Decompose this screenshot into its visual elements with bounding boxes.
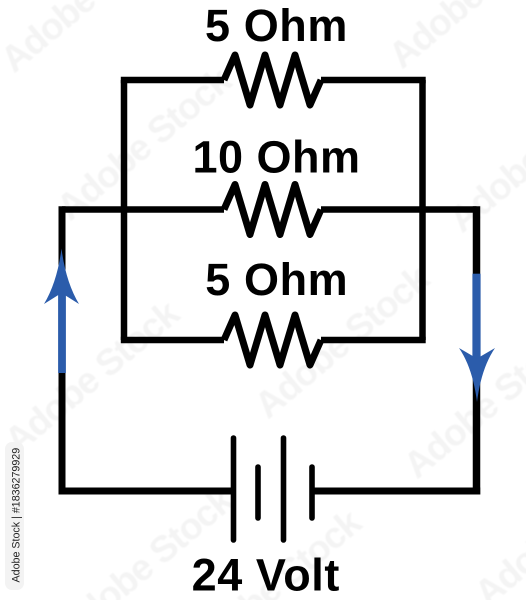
resistor R2 10 Ohm zigzag bbox=[224, 185, 321, 235]
resistor R3 5 Ohm zigzag bbox=[224, 315, 321, 365]
current arrow right (down) shaft bbox=[472, 274, 480, 360]
current arrow left (up) head bbox=[44, 249, 79, 305]
attribution pill background bbox=[5, 442, 24, 590]
wire: bottom left segment to battery bbox=[59, 488, 234, 495]
wire: top row right segment bbox=[321, 77, 426, 84]
wire: top row left segment bbox=[121, 77, 224, 84]
wire: inner box right rail bbox=[419, 80, 426, 340]
wire: inner box left rail bbox=[121, 80, 128, 340]
wire: middle row full span bbox=[62, 206, 224, 213]
svg-text:5 Ohm: 5 Ohm bbox=[205, 0, 348, 51]
svg-text:10 Ohm: 10 Ohm bbox=[192, 131, 360, 182]
battery B1 long plate 1 bbox=[231, 438, 237, 540]
wire: middle row right segment bbox=[321, 206, 477, 213]
battery B1 long plate 2 bbox=[281, 438, 287, 540]
svg-text:Adobe Stock | #1836279929: Adobe Stock | #1836279929 bbox=[11, 448, 23, 583]
wire: bottom row right segment bbox=[321, 337, 426, 344]
svg-text:5 Ohm: 5 Ohm bbox=[205, 254, 348, 305]
wire: bottom row left segment bbox=[121, 337, 224, 344]
wire: outer right rail bbox=[473, 206, 481, 494]
current arrow left (up) shaft bbox=[58, 290, 66, 373]
wire: bottom right segment from battery bbox=[312, 488, 480, 495]
resistor R1 5 Ohm zigzag bbox=[224, 55, 321, 105]
battery B1 short plate 1 bbox=[255, 467, 261, 518]
wire: outer left rail bbox=[59, 206, 66, 494]
svg-text:24 Volt: 24 Volt bbox=[192, 549, 340, 600]
current arrow right (down) head bbox=[459, 348, 495, 402]
battery B1 short plate 2 bbox=[309, 467, 315, 518]
